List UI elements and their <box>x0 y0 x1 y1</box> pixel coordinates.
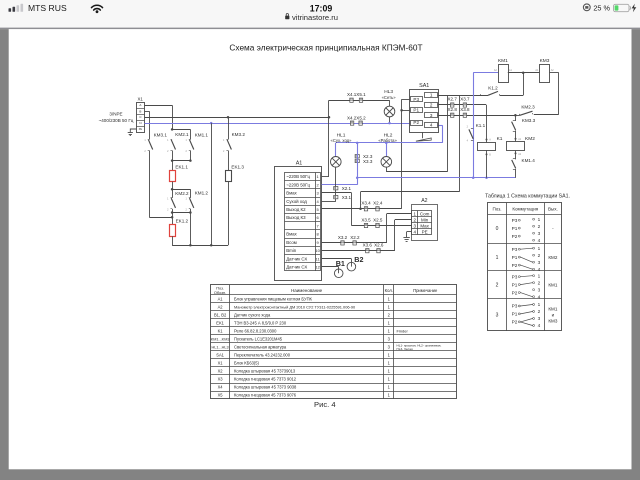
wire A1 pin9 Vcom <box>322 242 387 244</box>
svg-text:X4: X4 <box>218 385 224 390</box>
svg-text:Выход К2: Выход К2 <box>286 207 306 212</box>
svg-text:Примечание: Примечание <box>413 288 438 293</box>
svg-text:P3: P3 <box>512 304 518 309</box>
node A branch <box>171 128 174 131</box>
svg-text:EK1.3: EK1.3 <box>231 165 244 170</box>
heater return bus <box>172 245 228 247</box>
wire KM2 to KM1.4 <box>515 151 517 160</box>
svg-text:25 %: 25 % <box>593 4 610 13</box>
svg-text:KM2.1: KM2.1 <box>175 132 189 137</box>
wire SA1 contact1 to K1.2 <box>438 95 488 97</box>
wire Min riser <box>394 220 396 251</box>
heater EK1.2 <box>170 225 176 237</box>
node SA1 common <box>400 109 403 112</box>
A2 pin table <box>412 211 432 235</box>
wire HL2 top <box>386 143 388 157</box>
parts list table frame <box>211 285 457 399</box>
node C at pin1 riser <box>328 116 331 119</box>
svg-text:4: 4 <box>538 294 541 299</box>
svg-text:2: 2 <box>538 309 541 314</box>
parts row X4 <box>218 385 391 390</box>
svg-text:Таблица 1 Схема коммутации SA1: Таблица 1 Схема коммутации SA1. <box>485 194 570 200</box>
connector X5.1 <box>359 98 362 102</box>
svg-text:1: 1 <box>430 93 433 98</box>
svg-text:X2.4: X2.4 <box>373 201 383 206</box>
svg-text:PE: PE <box>422 229 428 234</box>
svg-text:2: 2 <box>496 282 499 288</box>
svg-text:Рис. 4: Рис. 4 <box>314 400 336 409</box>
svg-text:KM1: KM1 <box>498 58 508 64</box>
connector X3.7 <box>463 103 466 107</box>
svg-text:X3: X3 <box>218 377 224 382</box>
svg-text:Com: Com <box>420 211 430 216</box>
svg-text:KM3.3: KM3.3 <box>522 118 536 123</box>
svg-text:A2: A2 <box>218 304 224 309</box>
svg-text:Схема электрическая принципиал: Схема электрическая принципиальная КПЭМ-… <box>229 42 422 52</box>
node N to heater bus <box>210 122 213 125</box>
SA1 position 1 row <box>496 246 558 272</box>
svg-text:2: 2 <box>538 280 541 285</box>
SA1 throw 1 <box>425 93 438 98</box>
node KM2.2 bottom <box>171 211 174 214</box>
ground symbol at A2 <box>403 237 409 239</box>
svg-text:КМ1: КМ1 <box>548 306 558 311</box>
svg-text:Датчик сухого хода: Датчик сухого хода <box>234 312 271 317</box>
parts row SA1 <box>216 352 390 357</box>
connector X5.2 <box>359 121 362 125</box>
svg-text:X5: X5 <box>218 393 224 398</box>
connector X3.4 <box>364 207 367 211</box>
wire neutral N <box>144 123 410 125</box>
svg-text:X1: X1 <box>138 97 144 102</box>
svg-text:ТЭН В3-245 А 8,5/9,0 Р 230: ТЭН В3-245 А 8,5/9,0 Р 230 <box>234 320 287 325</box>
svg-text:X3.7: X3.7 <box>460 97 470 102</box>
node neutral bus left <box>356 177 359 180</box>
wifi icon <box>92 5 103 10</box>
wire phase A <box>144 105 172 107</box>
wire phase B <box>144 111 149 113</box>
wire K1 coil to neutral <box>486 150 488 178</box>
wire joining KM2.1 KM1.1 bottoms <box>172 160 190 162</box>
svg-text:3: 3 <box>430 113 433 118</box>
svg-text:X1: X1 <box>218 360 224 365</box>
svg-text:1: 1 <box>538 246 541 251</box>
relay coil K1 <box>478 143 496 151</box>
svg-text:4: 4 <box>538 238 541 243</box>
parts row A1 <box>218 296 391 301</box>
wire Max to A2 <box>351 225 411 227</box>
contactor contact KM1.2 <box>189 197 191 199</box>
svg-text:MTS RUS: MTS RUS <box>28 3 67 13</box>
wire A1 pin10 Vmin <box>322 250 395 252</box>
svg-text:1: 1 <box>538 302 541 307</box>
node KM1.1 bottom <box>189 159 192 162</box>
wire Com riser <box>386 214 388 243</box>
connector X3.8 <box>463 113 466 117</box>
wire A1 pin3 to Max <box>322 192 352 194</box>
svg-text:X2.2: X2.2 <box>350 235 360 240</box>
wire X3.3 down neutral <box>357 143 359 178</box>
manometer A2 box <box>412 205 438 241</box>
terminal block X1 <box>137 103 145 133</box>
svg-text:P3: P3 <box>512 274 518 279</box>
svg-text:B1: B1 <box>336 259 345 268</box>
svg-text:1: 1 <box>538 217 541 222</box>
svg-text:~220В 50Гц: ~220В 50Гц <box>286 174 310 179</box>
svg-text:2: 2 <box>538 253 541 258</box>
wire neutral to KM1 coil <box>473 72 498 74</box>
svg-text:X3.6: X3.6 <box>363 243 373 248</box>
svg-text:B1, B2: B1, B2 <box>214 312 227 317</box>
svg-text:KM2.3: KM2.3 <box>521 104 535 109</box>
connector X3.3 <box>355 159 359 162</box>
contactor coil KM3 <box>540 65 550 83</box>
SA1 pole P1 <box>411 108 423 113</box>
svg-text:X3.3: X3.3 <box>363 159 373 164</box>
svg-text:КМ1: КМ1 <box>548 282 558 287</box>
contactor contact KM2.2 <box>171 197 173 199</box>
wire KM3.2 to EK1.3 <box>228 151 230 171</box>
control unit A1 box <box>275 167 322 281</box>
svg-text:Вмах: Вмах <box>286 232 297 237</box>
svg-text:SA1: SA1 <box>419 83 429 89</box>
svg-text:P2: P2 <box>512 320 518 325</box>
svg-text:X3.4: X3.4 <box>361 201 371 206</box>
svg-text:Всом: Всом <box>286 240 297 245</box>
svg-text:«Сеть»: «Сеть» <box>382 95 397 100</box>
svg-text:Манометр электроконтактный ДМ: Манометр электроконтактный ДМ 2010 СУ2 Т… <box>234 304 356 309</box>
svg-text:KM3: KM3 <box>540 58 550 64</box>
svg-text:KM2: KM2 <box>525 136 535 142</box>
connector X4.1 <box>350 98 353 102</box>
url bar lock icon <box>285 13 289 19</box>
wire N drop <box>211 123 213 245</box>
svg-text:2: 2 <box>430 103 433 108</box>
wire SA1 contact2 to K1 coil <box>438 104 487 106</box>
svg-text:3/NPE: 3/NPE <box>109 112 122 117</box>
wire SA1 P1 <box>402 110 411 112</box>
wire KM1.1 to node <box>190 151 192 161</box>
node neutral K1.1 branch <box>472 177 475 180</box>
node KM1.2 bottom <box>189 211 192 214</box>
svg-text:P1: P1 <box>512 226 518 231</box>
svg-text:HL3- белая: HL3- белая <box>397 347 413 351</box>
wire HL2 bottom to K1.2 line <box>386 167 388 172</box>
svg-text:Сухой ход: Сухой ход <box>286 199 307 204</box>
svg-text:3: 3 <box>538 231 541 236</box>
svg-text:EK1.1: EK1.1 <box>175 165 188 170</box>
PE earth wire <box>130 129 136 133</box>
svg-text:Колодка штыревая 45 73739013: Колодка штыревая 45 73739013 <box>234 368 296 373</box>
svg-text:Выход К3: Выход К3 <box>286 215 306 220</box>
svg-text:A1: A1 <box>296 160 303 166</box>
SA1 throw 3 <box>425 113 438 118</box>
wire K1.2 to coils <box>500 95 524 97</box>
wire neutral lamp branch <box>336 142 443 144</box>
node B phase join <box>171 216 174 219</box>
battery icon <box>614 4 631 11</box>
heater EK1.1 <box>170 171 176 182</box>
svg-text:KM1.2: KM1.2 <box>195 191 209 196</box>
wire C drop to KM3.2 <box>228 117 230 139</box>
connector X2.3 <box>355 155 359 158</box>
node contact3 branch <box>514 114 517 117</box>
svg-text:P1: P1 <box>512 312 518 317</box>
connector X2.8 <box>451 113 454 117</box>
svg-text:Обозн.: Обозн. <box>214 290 226 295</box>
orientation lock icon <box>583 4 590 11</box>
svg-text:KM1.1: KM1.1 <box>195 132 209 137</box>
svg-text:K1.2: K1.2 <box>488 85 498 90</box>
contactor contact KM3.2 <box>226 139 228 141</box>
svg-text:X3.8: X3.8 <box>460 107 470 112</box>
svg-text:Пускатель LC1E3201M45: Пускатель LC1E3201M45 <box>234 336 283 341</box>
indicator lamp HL1 <box>331 157 342 168</box>
svg-text:K1: K1 <box>218 328 224 333</box>
svg-text:B: B <box>139 109 141 113</box>
node lamp branch HL2 <box>385 142 388 145</box>
toolbar divider <box>0 28 640 30</box>
svg-text:4: 4 <box>430 123 433 128</box>
svg-text:KM3.2: KM3.2 <box>232 132 246 137</box>
parts row X2 <box>218 368 391 373</box>
svg-text:3: 3 <box>538 260 541 265</box>
contactor contact KM2.1 <box>171 139 173 141</box>
svg-text:EK1: EK1 <box>216 320 224 325</box>
wire KM3 to KM2.3 <box>549 72 558 74</box>
svg-text:Датчик СХ: Датчик СХ <box>286 264 307 269</box>
wire KM3.1 down to EK1.2 node <box>149 151 151 218</box>
svg-text:P3: P3 <box>512 218 518 223</box>
wire SA1 contact3 <box>438 115 516 117</box>
svg-text:КМ2: КМ2 <box>548 255 558 260</box>
svg-text:Реле 66.82.8.230.0300: Реле 66.82.8.230.0300 <box>234 328 277 333</box>
parts row K1 <box>218 328 409 333</box>
svg-text:HL1...HL3: HL1...HL3 <box>212 345 229 349</box>
wire A1 pin2 neutral <box>322 184 358 186</box>
wire A1 pin5 K2 output <box>322 208 402 210</box>
wire branch to SA1 contact 1 <box>360 192 362 209</box>
wire A branch to KM2.1 KM1.1 <box>172 129 190 131</box>
connector X2.1 <box>334 187 338 190</box>
indicator lamp HL2 <box>381 157 392 168</box>
svg-text:A: A <box>139 103 141 107</box>
svg-text:3: 3 <box>538 287 541 292</box>
indicator lamp HL3 <box>384 106 395 117</box>
svg-text:Колодка гнездовая 45 7373 9012: Колодка гнездовая 45 7373 9012 <box>234 377 297 382</box>
svg-text:и: и <box>552 313 555 318</box>
svg-text:Вmin: Вmin <box>286 248 297 253</box>
svg-text:P2: P2 <box>512 234 518 239</box>
svg-text:Колодка штыревая 45 7373 9038: Колодка штыревая 45 7373 9038 <box>234 385 297 390</box>
parts row X5 <box>218 393 391 398</box>
node lamp branch X2.3 <box>356 142 359 145</box>
svg-text:K1: K1 <box>497 136 503 142</box>
connector X2.4 <box>376 207 379 211</box>
ground symbol at X1 <box>128 132 133 134</box>
contactor coil KM1 <box>499 65 509 83</box>
contactor contact KM3.1 <box>148 139 150 141</box>
wire to EK1.1 <box>172 161 174 171</box>
svg-text:X4.2X5.2: X4.2X5.2 <box>347 116 366 121</box>
wire KM1.2 bottom to bus <box>190 209 192 245</box>
svg-text:P2: P2 <box>512 290 518 295</box>
SA1 position 3 row <box>496 302 558 328</box>
node coil junction <box>522 71 525 74</box>
svg-text:X3.1: X3.1 <box>342 195 352 200</box>
svg-text:P1: P1 <box>512 282 518 287</box>
svg-text:P3: P3 <box>413 97 419 102</box>
SA1 throw 2 <box>425 103 438 108</box>
svg-text:KM2.2: KM2.2 <box>175 191 189 196</box>
svg-text:X2.1: X2.1 <box>342 186 352 191</box>
wire EK1.3 to bus <box>228 182 230 246</box>
wire EK1.1 to KM2.2 KM1.2 <box>172 182 174 198</box>
svg-text:Min: Min <box>421 217 429 222</box>
svg-text:0: 0 <box>496 226 499 232</box>
svg-text:4: 4 <box>538 267 541 272</box>
wire KM1.4 to neutral <box>515 169 517 178</box>
svg-text:Переключатель 43.24232.000: Переключатель 43.24232.000 <box>234 352 291 357</box>
level sensor B1 <box>334 269 343 278</box>
wire EK1.2 to bus <box>172 236 174 245</box>
wire joining KM2.2 KM1.2 bottoms <box>172 212 190 214</box>
connector X3.1 <box>334 195 338 198</box>
svg-text:P1: P1 <box>413 108 419 113</box>
svg-text:Поз.: Поз. <box>492 206 501 211</box>
wire A1 pin11 to B2 <box>322 258 352 260</box>
svg-text:«Работа»: «Работа» <box>378 138 397 143</box>
svg-text:A1: A1 <box>218 296 224 301</box>
svg-text:~400/230В 50 Гц: ~400/230В 50 Гц <box>99 118 134 123</box>
svg-text:Вмах: Вмах <box>286 191 297 196</box>
svg-text:EK1.2: EK1.2 <box>176 219 189 224</box>
contactor coil KM2 <box>507 142 525 151</box>
svg-text:KM1...KM3: KM1...KM3 <box>211 337 230 341</box>
svg-text:3: 3 <box>538 316 541 321</box>
svg-text:P3: P3 <box>512 247 518 252</box>
wire phase C <box>144 117 329 119</box>
level sensor B2 <box>347 262 356 271</box>
svg-text:17:09: 17:09 <box>310 3 333 13</box>
svg-text:10: 10 <box>315 248 320 253</box>
node HL3 neutral <box>388 122 391 125</box>
svg-text:X2.7: X2.7 <box>448 97 458 102</box>
heater EK1.3 <box>226 171 232 182</box>
wire HL3 to neutral <box>389 117 391 123</box>
svg-text:X2.5: X2.5 <box>373 217 383 222</box>
A1 pin table <box>285 173 321 271</box>
SA1 throw 4 <box>425 123 438 128</box>
node C at KM3.2 <box>227 116 230 119</box>
svg-text:Датчик СХ: Датчик СХ <box>286 256 307 261</box>
svg-text:A2: A2 <box>421 198 427 204</box>
SA1 commutation table frame <box>488 203 562 331</box>
wire A1 pin1 to phase C <box>322 176 329 178</box>
svg-text:Колодка гнездовая 45 7373 9076: Колодка гнездовая 45 7373 9076 <box>234 393 297 398</box>
svg-text:X2.6: X2.6 <box>374 243 384 248</box>
connector X3.5 <box>364 223 367 227</box>
svg-text:Светосигнальная арматура: Светосигнальная арматура <box>234 344 287 349</box>
parts row B1, B2 <box>214 312 391 317</box>
wire KM3.3 to KM2 coil <box>515 131 517 142</box>
wire HL1 top <box>335 143 337 157</box>
wire A2 PE to ground <box>407 231 412 233</box>
connector X3.2 <box>341 241 344 245</box>
contactor contact KM2.3 <box>515 115 519 117</box>
node KM2.1 bottom <box>171 159 174 162</box>
contactor contact KM3.3 <box>515 115 517 121</box>
SA1 selector lever <box>422 132 424 138</box>
wire lamp circuit X4.1 X5.1 <box>329 100 390 102</box>
parts row X3 <box>218 377 391 382</box>
svg-text:«Сух. ход»: «Сух. ход» <box>331 138 353 143</box>
charging bolt <box>632 4 637 13</box>
svg-text:X2.8: X2.8 <box>448 107 458 112</box>
svg-text:X2: X2 <box>218 368 224 373</box>
svg-text:B2: B2 <box>354 255 363 264</box>
svg-text:P2: P2 <box>413 120 419 125</box>
svg-text:N: N <box>139 121 141 125</box>
svg-text:Finder: Finder <box>397 328 409 333</box>
svg-text:Кол.: Кол. <box>385 288 393 293</box>
svg-text:1: 1 <box>538 273 541 278</box>
svg-text:Max: Max <box>420 223 429 228</box>
svg-text:Вых.: Вых. <box>548 206 558 211</box>
svg-text:P2: P2 <box>512 263 518 268</box>
svg-text:vitrinastore.ru: vitrinastore.ru <box>292 13 338 22</box>
connector X4.2 <box>350 121 353 125</box>
svg-text:SA1: SA1 <box>216 352 224 357</box>
parts row HL1...HL3 <box>212 344 442 351</box>
cellular signal bars <box>9 4 24 12</box>
svg-text:KM1.4: KM1.4 <box>522 158 536 163</box>
wire pin5 riser to SA1 common <box>401 99 403 209</box>
wire A1 pin12 to B1 <box>322 266 339 268</box>
relay contact K1.1 <box>469 129 473 139</box>
wire branch to KM1.2 <box>172 189 190 191</box>
svg-text:P1: P1 <box>512 255 518 260</box>
wire KM2.1 to node <box>172 151 174 161</box>
svg-text:PE: PE <box>139 128 143 131</box>
wire KM2.2 bottom <box>172 209 174 225</box>
connector X2.6 <box>377 249 380 253</box>
svg-text:Блок управления пищевым котлом: Блок управления пищевым котлом БУПК <box>234 296 313 301</box>
contactor contact KM1.1 <box>189 139 191 141</box>
SA1 pole P3 <box>411 97 423 102</box>
contactor contact KM1.4 <box>512 160 516 169</box>
svg-text:X3.5: X3.5 <box>361 217 371 222</box>
svg-text:K1.1: K1.1 <box>476 123 486 128</box>
svg-text:KM3.1: KM3.1 <box>154 133 168 138</box>
connector X2.5 <box>376 223 379 227</box>
svg-text:12: 12 <box>315 264 320 269</box>
svg-text:Блок КБ63(5): Блок КБ63(5) <box>234 360 260 365</box>
parts row KM1...KM3 <box>211 336 391 341</box>
wire A1 pin4 from HL1 <box>322 201 336 203</box>
svg-text:Наименование: Наименование <box>291 288 323 293</box>
SA1 pole P2 <box>411 121 423 126</box>
parts row EK1 <box>216 320 390 325</box>
connector X2.2 <box>353 241 356 245</box>
node bus KM1.2 <box>189 244 192 247</box>
svg-text:3: 3 <box>496 313 499 319</box>
svg-text:X4.1X5.1: X4.1X5.1 <box>347 92 366 97</box>
node neutral K1 coil <box>485 177 488 180</box>
svg-text:КМ3: КМ3 <box>548 319 558 324</box>
wire neutral coil bus <box>357 177 515 179</box>
svg-text:Коммутация: Коммутация <box>512 206 538 211</box>
